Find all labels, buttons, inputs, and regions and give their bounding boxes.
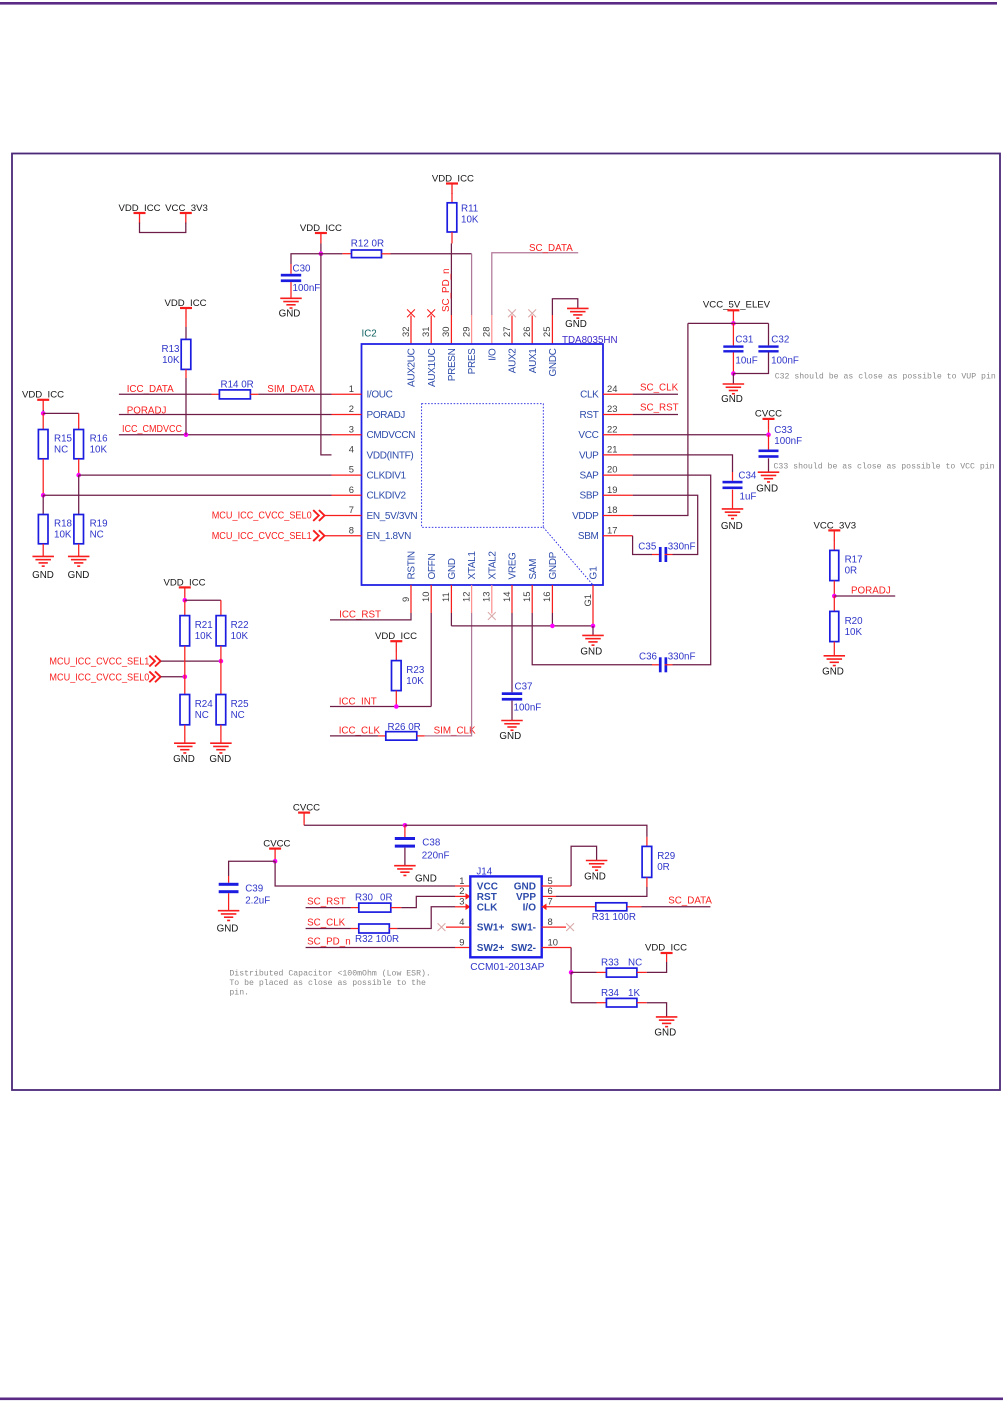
net label MCU_ICC_CVCC_SEL0 (port) bbox=[212, 510, 325, 521]
svg-text:R24: R24 bbox=[195, 699, 214, 710]
capacitor C38 bbox=[395, 837, 450, 861]
junction R13/ICC_CMDVCC bbox=[184, 432, 189, 437]
wire SIM_CLK to pin12 bbox=[417, 585, 472, 736]
svg-text:TDA8035HN: TDA8035HN bbox=[562, 335, 618, 346]
power CVCC (C33) bbox=[755, 408, 782, 429]
wire junction to ground bbox=[732, 374, 734, 385]
junction PORADJ bbox=[832, 594, 837, 599]
svg-text:R17: R17 bbox=[845, 555, 863, 566]
junction VDD_ICC R15/R16 bbox=[41, 411, 46, 416]
svg-text:3: 3 bbox=[459, 896, 464, 907]
svg-text:R34: R34 bbox=[601, 988, 620, 999]
note C33 placement bbox=[774, 462, 995, 472]
wire PORADJ bbox=[834, 595, 895, 597]
svg-text:CLKDIV1: CLKDIV1 bbox=[367, 471, 407, 482]
power VDD_ICC (R13) bbox=[164, 298, 206, 319]
resistor R18 bbox=[38, 515, 72, 544]
ground C33 bbox=[756, 472, 779, 494]
resistor R17 bbox=[830, 550, 863, 580]
wire R33 to VDD_ICC bbox=[637, 954, 667, 972]
ground C38 bbox=[394, 866, 437, 885]
no-connect pin 31 bbox=[427, 309, 435, 317]
svg-text:CLK: CLK bbox=[477, 902, 498, 913]
svg-text:0R: 0R bbox=[657, 862, 670, 873]
svg-text:SC_DATA: SC_DATA bbox=[668, 896, 712, 907]
resistor R31 bbox=[592, 903, 636, 923]
junction pin10/R33/R34 bbox=[569, 970, 574, 975]
svg-text:0R: 0R bbox=[845, 566, 858, 577]
svg-text:NC: NC bbox=[231, 710, 245, 721]
junction SEL1/R22 bbox=[219, 659, 224, 664]
arrow into pin3 bbox=[466, 904, 471, 911]
svg-text:1: 1 bbox=[349, 383, 354, 394]
pin 27 stub bbox=[511, 316, 513, 345]
svg-text:GND: GND bbox=[447, 558, 458, 579]
pin 31 stub bbox=[430, 316, 432, 345]
wire C30 to ground bbox=[290, 282, 292, 298]
svg-text:10K: 10K bbox=[845, 627, 863, 638]
no-connect J14 pin8 bbox=[566, 923, 574, 931]
junction SEL0/R21 bbox=[183, 675, 188, 680]
no-connect pin 27 bbox=[508, 309, 516, 317]
svg-text:VDD(INTF): VDD(INTF) bbox=[367, 450, 414, 461]
note C32 placement bbox=[775, 371, 996, 381]
svg-text:ICC_CMDVCC: ICC_CMDVCC bbox=[122, 424, 182, 435]
svg-text:SBP: SBP bbox=[580, 491, 600, 502]
capacitor C34 bbox=[723, 471, 757, 503]
svg-text:SC_DATA: SC_DATA bbox=[529, 243, 573, 254]
svg-text:330nF: 330nF bbox=[668, 542, 696, 553]
svg-text:GND: GND bbox=[721, 394, 743, 405]
wire G1 to bus bbox=[592, 585, 594, 626]
power VCC_3V3 (R17) bbox=[813, 520, 856, 541]
svg-text:R21: R21 bbox=[195, 620, 213, 631]
wire CVCC rail bbox=[304, 823, 405, 825]
resistor R20 bbox=[830, 611, 863, 641]
svg-text:6: 6 bbox=[349, 484, 354, 495]
wire ICC_INT to pin10 bbox=[330, 585, 431, 707]
power VDD_ICC (R12) bbox=[300, 223, 342, 244]
wire pin14 to C37 bbox=[511, 585, 513, 692]
wire CVCC to J14 pin1 bbox=[275, 861, 470, 886]
svg-text:220nF: 220nF bbox=[422, 850, 450, 861]
wire CLKDIV2 to pin6 bbox=[43, 494, 361, 496]
resistor R23 bbox=[392, 661, 425, 691]
wire R31 SC_DATA bbox=[627, 906, 711, 908]
svg-text:9: 9 bbox=[459, 936, 464, 947]
ground R25 bbox=[209, 743, 231, 765]
resistor R19 bbox=[74, 515, 108, 544]
junction CVCC/C39 bbox=[273, 859, 278, 864]
wire rail to R29 bbox=[405, 825, 647, 846]
svg-text:26: 26 bbox=[521, 327, 532, 337]
wire C38 to ground bbox=[404, 848, 406, 866]
svg-text:10uF: 10uF bbox=[735, 355, 757, 366]
svg-text:SW2+: SW2+ bbox=[477, 943, 505, 954]
svg-text:MCU_ICC_CVCC_SEL0: MCU_ICC_CVCC_SEL0 bbox=[212, 511, 313, 522]
ground GNDC bbox=[565, 308, 588, 329]
wire pin5 to ground bbox=[542, 846, 597, 886]
resistor R29 bbox=[642, 846, 675, 877]
net label MCU_ICC_CVCC_SEL1 (port) bbox=[212, 530, 325, 542]
arrow into pin7 bbox=[542, 904, 547, 911]
resistor R13 bbox=[162, 339, 191, 369]
svg-text:GND: GND bbox=[415, 874, 437, 885]
wire VDD_ICC down bbox=[320, 244, 322, 254]
svg-text:9: 9 bbox=[400, 597, 411, 602]
svg-text:5: 5 bbox=[349, 464, 354, 475]
pin4 stub bbox=[446, 926, 470, 928]
svg-text:21: 21 bbox=[607, 444, 617, 455]
svg-text:GND: GND bbox=[217, 924, 239, 935]
svg-text:10K: 10K bbox=[461, 215, 479, 226]
IC top pin names and numbers bbox=[400, 327, 559, 387]
ground R20 bbox=[822, 656, 845, 678]
svg-text:GND: GND bbox=[514, 882, 536, 893]
wire pin10 down bbox=[542, 948, 571, 973]
svg-text:GNDP: GNDP bbox=[548, 551, 559, 579]
svg-text:CCM01-2013AP: CCM01-2013AP bbox=[470, 962, 544, 973]
svg-text:19: 19 bbox=[607, 484, 617, 495]
svg-text:R25: R25 bbox=[231, 699, 250, 710]
svg-text:10K: 10K bbox=[231, 631, 249, 642]
ground R34 bbox=[654, 1017, 677, 1039]
wire pin16 to bus bbox=[551, 585, 553, 626]
wire R15 to pin6 row bbox=[42, 459, 44, 496]
svg-text:7: 7 bbox=[349, 504, 354, 515]
svg-text:Distributed Capacitor <100mOhm: Distributed Capacitor <100mOhm (Low ESR)… bbox=[229, 969, 430, 979]
wire C33 to ground bbox=[768, 458, 770, 472]
svg-text:CLKDIV2: CLKDIV2 bbox=[367, 491, 407, 502]
svg-text:330nF: 330nF bbox=[668, 652, 696, 663]
svg-text:SC_RST: SC_RST bbox=[307, 896, 346, 907]
junction R15/CLKDIV2 bbox=[41, 493, 46, 498]
wire R34 to ground bbox=[637, 1003, 667, 1017]
svg-text:CVCC: CVCC bbox=[755, 408, 782, 419]
wire VDD_ICC split 2 bbox=[184, 598, 186, 600]
svg-text:R29: R29 bbox=[657, 851, 675, 862]
wire R22 chain bbox=[220, 646, 222, 695]
ground R18 bbox=[32, 556, 54, 581]
svg-text:PORADJ: PORADJ bbox=[367, 410, 406, 421]
wire C37 to ground bbox=[511, 701, 513, 721]
svg-text:CLK: CLK bbox=[580, 390, 599, 401]
svg-text:23: 23 bbox=[607, 403, 617, 414]
svg-text:GND: GND bbox=[756, 484, 778, 495]
svg-text:GND: GND bbox=[654, 1028, 676, 1039]
svg-text:24: 24 bbox=[607, 383, 617, 394]
wire junction to R20 bbox=[833, 596, 835, 611]
svg-text:XTAL2: XTAL2 bbox=[487, 551, 498, 580]
wire to R21 top bbox=[184, 600, 186, 615]
wire pin21 to C34 bbox=[603, 455, 733, 481]
svg-text:R30: R30 bbox=[355, 892, 374, 903]
wire ground bus bbox=[451, 625, 593, 627]
svg-text:16: 16 bbox=[541, 592, 552, 602]
svg-text:J14: J14 bbox=[476, 867, 492, 878]
svg-text:10: 10 bbox=[420, 592, 431, 602]
svg-text:10K: 10K bbox=[54, 530, 72, 541]
svg-text:4: 4 bbox=[459, 916, 464, 927]
pin 26 stub bbox=[531, 316, 533, 345]
wire pin23 SC_RST bbox=[603, 414, 678, 416]
svg-text:NC: NC bbox=[54, 445, 68, 456]
svg-text:AUX2UC: AUX2UC bbox=[407, 348, 418, 387]
net label PORADJ (right) bbox=[851, 585, 891, 596]
svg-text:SC_CLK: SC_CLK bbox=[307, 917, 346, 928]
connector J14 body bbox=[470, 876, 541, 957]
wire ICC_DATA to R14 bbox=[119, 393, 219, 395]
wire R18 to ground bbox=[42, 544, 44, 557]
svg-text:13: 13 bbox=[481, 592, 492, 602]
svg-text:GND: GND bbox=[721, 521, 743, 532]
svg-text:C37: C37 bbox=[515, 681, 533, 692]
svg-text:RSTIN: RSTIN bbox=[407, 551, 418, 579]
wire rail to C32 bbox=[768, 323, 770, 345]
svg-text:SW2-: SW2- bbox=[511, 943, 536, 954]
svg-text:C33: C33 bbox=[774, 425, 793, 436]
svg-text:R20: R20 bbox=[845, 616, 864, 627]
svg-text:C30: C30 bbox=[293, 264, 312, 275]
svg-text:RST: RST bbox=[580, 410, 599, 421]
svg-text:0R: 0R bbox=[380, 892, 393, 903]
net label SC_PD_n (vertical) bbox=[441, 268, 452, 312]
net label SC_DATA (J14) bbox=[668, 896, 712, 907]
svg-text:R12 0R: R12 0R bbox=[351, 238, 384, 249]
resistor R32 bbox=[355, 924, 399, 945]
svg-text:C39: C39 bbox=[245, 883, 263, 894]
note distributed capacitor bbox=[229, 969, 430, 998]
svg-text:2: 2 bbox=[349, 403, 354, 414]
capacitor C32 bbox=[758, 334, 798, 366]
power CVCC (top of J14 area) bbox=[293, 803, 320, 824]
ground C31/C32 bbox=[721, 384, 744, 405]
capacitor C39 bbox=[219, 883, 271, 907]
svg-text:1K: 1K bbox=[628, 988, 640, 999]
svg-text:R23: R23 bbox=[406, 665, 425, 676]
svg-text:R18: R18 bbox=[54, 519, 73, 530]
wire R21 chain bbox=[184, 646, 186, 695]
wire R16 to pin5 row bbox=[78, 459, 80, 475]
svg-text:SC_PD_n: SC_PD_n bbox=[307, 937, 351, 948]
wire C36 to pin20 bbox=[603, 475, 711, 665]
capacitor C36 bbox=[639, 652, 695, 673]
svg-text:SIM_DATA: SIM_DATA bbox=[267, 384, 315, 395]
net label SC_CLK (J14) bbox=[307, 917, 346, 928]
resistor R25 bbox=[216, 695, 249, 725]
wire bracket VDD_ICC-VCC_3V3 bbox=[140, 223, 186, 233]
wire SEL0 to R21 bbox=[161, 676, 185, 678]
svg-text:R26 0R: R26 0R bbox=[388, 722, 421, 733]
wire ICC_CMDVCC to pin3 bbox=[119, 434, 362, 436]
wire to R22 top bbox=[185, 600, 221, 615]
wire pin15 to C36 bbox=[532, 585, 659, 665]
svg-text:GND: GND bbox=[209, 754, 231, 765]
no-connect pin 13 bbox=[488, 612, 496, 620]
wire VDD_ICC to R13 bbox=[185, 319, 187, 340]
svg-text:100nF: 100nF bbox=[293, 283, 321, 294]
capacitor C33 bbox=[759, 425, 803, 458]
svg-text:XTAL1: XTAL1 bbox=[467, 551, 478, 580]
wire C39 to ground bbox=[228, 893, 230, 911]
net label SIM_DATA bbox=[267, 384, 315, 395]
wire pin7 to R31 bbox=[542, 906, 596, 908]
svg-text:IC2: IC2 bbox=[362, 329, 377, 340]
wire VDD_ICC to R11 bbox=[451, 193, 453, 203]
power VCC_5V_ELEV bbox=[703, 300, 771, 321]
pin 32 stub bbox=[410, 316, 412, 345]
net label SC_RST (J14) bbox=[307, 896, 346, 907]
bottom purple bar bbox=[0, 1398, 1003, 1401]
top purple bar bbox=[0, 2, 997, 5]
wire VDD_ICC split bbox=[42, 410, 44, 413]
svg-text:C32 should be as close as poss: C32 should be as close as possible to VU… bbox=[775, 371, 996, 381]
resistor R14 bbox=[219, 380, 253, 399]
svg-text:1: 1 bbox=[459, 875, 464, 886]
wire CVCC junction to C33 bbox=[768, 435, 770, 450]
svg-text:I/OUC: I/OUC bbox=[367, 390, 393, 401]
power VDD_ICC (R33) bbox=[645, 943, 687, 954]
svg-text:RST: RST bbox=[477, 892, 497, 903]
svg-text:VCC_5V_ELEV: VCC_5V_ELEV bbox=[703, 300, 771, 311]
svg-text:10K: 10K bbox=[195, 631, 213, 642]
svg-text:SAP: SAP bbox=[580, 471, 600, 482]
svg-text:MCU_ICC_CVCC_SEL1: MCU_ICC_CVCC_SEL1 bbox=[49, 656, 149, 667]
wire junction to R33 bbox=[571, 971, 606, 973]
svg-text:10K: 10K bbox=[162, 355, 180, 366]
svg-text:CMDVCCN: CMDVCCN bbox=[367, 430, 416, 441]
svg-text:R33: R33 bbox=[601, 957, 620, 968]
resistor R30 bbox=[355, 892, 393, 912]
IC bottom pin names and numbers bbox=[400, 551, 600, 607]
svg-text:VCC: VCC bbox=[578, 430, 598, 441]
junction CVCC/C33 bbox=[766, 432, 771, 437]
net label ICC_DATA bbox=[127, 384, 174, 395]
svg-text:VCC: VCC bbox=[477, 882, 498, 893]
resistor R22 bbox=[216, 616, 248, 646]
arrow into pin2 bbox=[466, 893, 471, 900]
wire rail to VDDP pin18 bbox=[603, 323, 688, 515]
svg-text:VREG: VREG bbox=[508, 552, 519, 580]
net label SC_CLK bbox=[640, 382, 679, 393]
wire pin11 to bus bbox=[450, 585, 452, 626]
junction CVCC/C38 bbox=[403, 823, 408, 828]
svg-text:R16: R16 bbox=[90, 434, 109, 445]
wire C31 to junction bbox=[732, 352, 734, 373]
ground C39 bbox=[217, 911, 240, 935]
power VDD_ICC (R11) bbox=[432, 174, 474, 195]
svg-text:10K: 10K bbox=[90, 445, 108, 456]
svg-text:OFFN: OFFN bbox=[427, 554, 438, 580]
svg-text:GNDC: GNDC bbox=[548, 348, 559, 376]
wire R24 to ground bbox=[184, 725, 186, 743]
svg-text:C33 should be as close as poss: C33 should be as close as possible to VC… bbox=[774, 462, 995, 472]
svg-text:15: 15 bbox=[521, 592, 532, 602]
svg-text:EN_5V/3VN: EN_5V/3VN bbox=[367, 511, 418, 522]
svg-text:32: 32 bbox=[400, 327, 411, 337]
ground R19 bbox=[68, 556, 90, 581]
svg-text:NC: NC bbox=[195, 710, 209, 721]
svg-text:2: 2 bbox=[459, 885, 464, 896]
junction VCC_5V_ELEV rail bbox=[731, 321, 736, 326]
wire SC_PD_n to pin9 bbox=[306, 947, 471, 949]
wire SC_CLK to R32 bbox=[306, 928, 359, 930]
svg-text:28: 28 bbox=[481, 327, 492, 337]
ground C30 bbox=[279, 298, 302, 319]
resistor R12 bbox=[351, 238, 384, 257]
svg-text:17: 17 bbox=[607, 524, 617, 535]
svg-text:SW1-: SW1- bbox=[511, 923, 536, 934]
wire R16 junction to R19 bbox=[78, 475, 80, 514]
svg-text:10: 10 bbox=[548, 936, 558, 947]
svg-text:ICC_INT: ICC_INT bbox=[339, 697, 377, 708]
svg-text:14: 14 bbox=[501, 592, 512, 602]
svg-text:pin.: pin. bbox=[229, 988, 249, 998]
svg-text:C34: C34 bbox=[738, 471, 757, 482]
svg-text:29: 29 bbox=[460, 327, 471, 337]
svg-text:GND: GND bbox=[173, 754, 195, 765]
svg-text:8: 8 bbox=[349, 524, 354, 535]
wire R25 to ground bbox=[220, 725, 222, 743]
svg-text:R22: R22 bbox=[231, 620, 249, 631]
svg-text:3: 3 bbox=[349, 423, 354, 434]
svg-text:31: 31 bbox=[420, 327, 431, 337]
net label ICC_CMDVCC bbox=[122, 424, 182, 435]
ground C34 bbox=[721, 509, 743, 532]
resistor R34 bbox=[601, 988, 640, 1007]
wire ICC_RST to pin9 bbox=[330, 585, 411, 620]
pin8 stub bbox=[542, 926, 566, 928]
wire SEL1 to pin8 bbox=[325, 535, 362, 537]
pin 13 stub bbox=[491, 585, 493, 614]
ground J14 pin5 bbox=[584, 861, 607, 883]
svg-text:AUX2: AUX2 bbox=[508, 348, 519, 374]
svg-text:VDD_ICC: VDD_ICC bbox=[645, 943, 687, 954]
svg-text:SBM: SBM bbox=[578, 531, 599, 542]
svg-text:6: 6 bbox=[548, 885, 553, 896]
resistor R15 bbox=[38, 430, 72, 459]
wire R19 to ground bbox=[78, 544, 80, 557]
svg-text:SC_RST: SC_RST bbox=[640, 403, 679, 414]
wire R14 to pin1 bbox=[250, 393, 361, 395]
power VDD_ICC (R23) bbox=[375, 631, 417, 652]
no-connect pin 32 bbox=[407, 309, 415, 317]
svg-text:R32 100R: R32 100R bbox=[355, 934, 399, 945]
label IC2 bbox=[362, 329, 377, 340]
junction G1/bus bbox=[591, 624, 596, 629]
svg-text:C38: C38 bbox=[422, 837, 441, 848]
J14 pin names and numbers bbox=[459, 875, 558, 954]
no-connect pin 26 bbox=[528, 309, 536, 317]
svg-text:R14 0R: R14 0R bbox=[221, 380, 254, 391]
svg-text:11: 11 bbox=[440, 592, 451, 602]
resistor R26 bbox=[386, 722, 421, 740]
wire junction to C30 bbox=[291, 254, 321, 274]
wire junction to R12 bbox=[321, 253, 352, 255]
svg-text:20: 20 bbox=[607, 464, 617, 475]
svg-text:18: 18 bbox=[607, 504, 617, 515]
junction VDD_ICC/R12/C30 bbox=[319, 251, 324, 256]
wire R23 to ICC_INT bbox=[395, 691, 397, 707]
svg-text:VPP: VPP bbox=[516, 892, 536, 903]
resistor R11 bbox=[447, 203, 479, 232]
svg-text:100nF: 100nF bbox=[774, 436, 802, 447]
svg-text:1uF: 1uF bbox=[740, 491, 757, 502]
net label PORADJ (left) bbox=[127, 405, 167, 416]
wire R20 to ground bbox=[833, 642, 835, 656]
power VCC_3V3 (top-left) bbox=[165, 203, 208, 224]
svg-text:SC_CLK: SC_CLK bbox=[640, 382, 679, 393]
